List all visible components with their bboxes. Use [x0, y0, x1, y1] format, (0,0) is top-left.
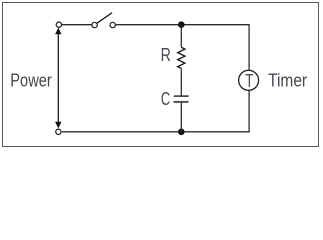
timer T circle [239, 70, 259, 90]
wire from top node to resistor [180, 25, 182, 48]
svg-text:R: R [161, 45, 171, 65]
wire resistor to capacitor [180, 68, 182, 95]
wire right rail upper [248, 25, 250, 70]
power arrowhead down [55, 122, 61, 129]
wire right rail lower [248, 91, 250, 132]
switch S (left contact) [92, 22, 97, 27]
svg-text:Timer: Timer [268, 71, 307, 91]
wire top rail right segment [116, 24, 250, 26]
power arrowhead up [55, 28, 61, 35]
capacitor C top plate [174, 95, 189, 97]
node junction top (dot) [178, 21, 185, 28]
node junction bottom (dot) [178, 129, 185, 136]
capacitor C bottom plate [174, 101, 189, 103]
svg-text:Power: Power [10, 71, 52, 91]
resistor R zigzag [178, 47, 185, 68]
power double-arrow line [57, 29, 59, 127]
terminal bottom-left [56, 129, 61, 134]
wire capacitor to bottom node [180, 103, 182, 132]
terminal top-left [56, 22, 61, 27]
switch S (right contact) [110, 22, 115, 27]
wire bottom rail [62, 131, 250, 133]
svg-text:C: C [161, 89, 170, 109]
wire top rail left segment [62, 24, 92, 26]
svg-text:T: T [245, 71, 253, 91]
switch S blade [97, 13, 112, 24]
